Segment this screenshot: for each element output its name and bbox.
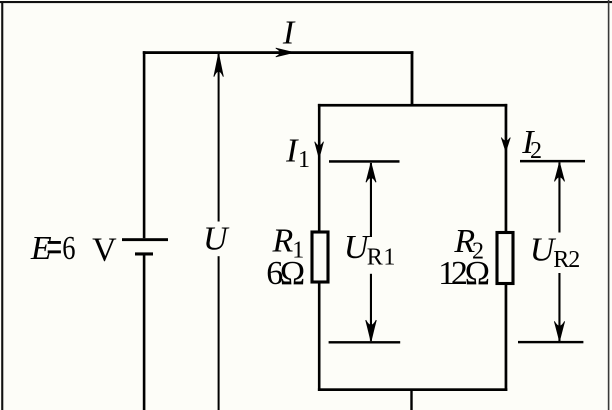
svg-text:6: 6 (62, 229, 75, 267)
svg-text:E: E (30, 230, 52, 267)
svg-text:Ω: Ω (280, 255, 305, 292)
svg-text:1: 1 (383, 245, 395, 271)
svg-text:Ω: Ω (465, 255, 490, 292)
svg-text:V: V (92, 231, 117, 268)
svg-text:2: 2 (568, 247, 580, 273)
svg-text:I: I (285, 132, 299, 169)
svg-text:1: 1 (298, 147, 310, 173)
svg-text:R: R (367, 245, 383, 271)
svg-text:2: 2 (530, 138, 542, 164)
svg-text:R: R (553, 247, 569, 273)
svg-text:U: U (203, 220, 230, 257)
svg-text:I: I (282, 15, 296, 52)
